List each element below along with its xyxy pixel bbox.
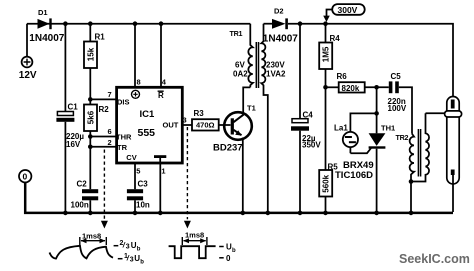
node R1/R2/pin7 xyxy=(88,97,93,102)
svg-text:560k: 560k xyxy=(322,174,331,192)
svg-text:470Ω: 470Ω xyxy=(196,121,215,130)
svg-text:b: b xyxy=(137,246,141,252)
svg-text:350V: 350V xyxy=(302,140,321,149)
level label 1/3 Ub xyxy=(118,258,123,260)
svg-text:D1: D1 xyxy=(38,8,48,17)
resistor R3 xyxy=(192,109,231,131)
svg-text:300V: 300V xyxy=(338,5,358,15)
node: top rail pin4 junction xyxy=(159,21,164,26)
waveform: output square wave xyxy=(169,231,236,264)
svg-text:1N4007: 1N4007 xyxy=(263,34,298,45)
svg-text:7: 7 xyxy=(108,90,112,99)
svg-text:1N4007: 1N4007 xyxy=(29,33,64,44)
plus symbol pin 8 xyxy=(132,90,140,98)
IC1 555 timer xyxy=(108,78,187,176)
svg-text:CV: CV xyxy=(126,153,136,162)
svg-text:T1: T1 xyxy=(247,104,256,113)
node: top rail pin8 junction xyxy=(133,21,138,26)
wire pin 3 to R3 xyxy=(182,124,192,126)
node 300V / R4 xyxy=(323,21,328,26)
svg-text:IC1: IC1 xyxy=(140,109,156,120)
wire pin 6 xyxy=(90,136,116,138)
secondary winding 230V xyxy=(261,24,267,212)
svg-text:R1: R1 xyxy=(95,33,106,42)
svg-text:TR: TR xyxy=(117,143,128,152)
svg-text:1VA2: 1VA2 xyxy=(266,70,286,79)
waveform: capacitor sawtooth xyxy=(50,232,145,266)
secondary winding xyxy=(411,113,429,181)
svg-text:3: 3 xyxy=(130,257,134,264)
svg-text:b: b xyxy=(140,260,144,266)
svg-text:C3: C3 xyxy=(138,180,149,189)
resistor R6 xyxy=(326,72,389,93)
svg-text:C4: C4 xyxy=(303,111,314,120)
capacitor C4 xyxy=(291,24,321,212)
flash tube xyxy=(445,97,462,185)
diode D2 xyxy=(263,7,298,45)
capacitor C2 xyxy=(71,147,99,212)
wire pin 7 xyxy=(90,98,116,100)
svg-text:5k6: 5k6 xyxy=(87,110,96,124)
svg-text:1M5: 1M5 xyxy=(322,46,331,62)
svg-text:12V: 12V xyxy=(19,70,37,81)
svg-text:0: 0 xyxy=(23,172,28,182)
1ms8 measure left xyxy=(80,237,107,245)
primary winding xyxy=(410,134,414,212)
wire collector to TR1 primary xyxy=(243,87,250,114)
svg-text:3: 3 xyxy=(183,116,187,125)
svg-text:1ms8: 1ms8 xyxy=(82,232,101,241)
capacitor C3 xyxy=(127,164,150,212)
svg-text:D2: D2 xyxy=(274,7,284,16)
wire TR1 secondary top to D2 xyxy=(264,23,273,25)
transformer TR2 xyxy=(396,113,430,212)
ground rail xyxy=(25,182,453,213)
wire flash tube bottom to rail xyxy=(452,184,454,212)
svg-text:6: 6 xyxy=(108,127,112,136)
svg-text:15k: 15k xyxy=(87,47,96,61)
node R6/C5/TH1 xyxy=(374,85,379,90)
capacitor C1 xyxy=(56,24,84,212)
wire pin 1 to ground rail xyxy=(159,164,161,213)
12V supply terminal xyxy=(19,57,37,81)
level label Ub xyxy=(219,246,224,248)
svg-text:8: 8 xyxy=(137,78,141,87)
transistor T1 BD237 xyxy=(213,104,256,154)
resistor R2 xyxy=(84,99,109,146)
dashed probe line at pin 3 xyxy=(186,127,188,219)
svg-text:La1: La1 xyxy=(334,124,348,133)
capacitor C5 xyxy=(388,72,413,134)
svg-text:C2: C2 xyxy=(77,180,88,189)
thyristor TH1 xyxy=(335,87,395,212)
primary winding 6V xyxy=(248,24,252,88)
svg-text:3: 3 xyxy=(126,243,130,250)
svg-text:100n: 100n xyxy=(71,201,89,210)
wire top right rail xyxy=(288,24,453,97)
transformer TR1 xyxy=(230,24,286,212)
svg-text:b: b xyxy=(232,248,236,254)
svg-text:TR2: TR2 xyxy=(396,133,409,142)
svg-text:C5: C5 xyxy=(391,72,402,81)
svg-text:230V: 230V xyxy=(266,61,285,70)
resistor R1 xyxy=(84,24,105,100)
wire pin 8 xyxy=(134,24,136,88)
wire from 12V to top rail xyxy=(26,24,28,57)
node R2/pin6 xyxy=(88,134,93,139)
svg-text:5: 5 xyxy=(136,167,140,176)
level label 0 xyxy=(219,257,224,259)
wire top rail xyxy=(27,23,250,25)
wire emitter to ground rail xyxy=(242,138,244,213)
0 terminal xyxy=(19,170,31,182)
ground glyph inside IC xyxy=(154,155,166,158)
svg-text:BD237: BD237 xyxy=(213,143,243,154)
svg-text:R3: R3 xyxy=(194,109,205,118)
svg-text:0: 0 xyxy=(226,254,231,263)
svg-text:DIS: DIS xyxy=(117,98,130,107)
svg-text:555: 555 xyxy=(138,127,156,139)
1ms8 measure right xyxy=(182,237,207,245)
svg-text:R: R xyxy=(158,91,164,100)
wire pin 4 xyxy=(160,24,162,88)
diode D1 xyxy=(29,8,64,44)
svg-text:2: 2 xyxy=(108,138,112,147)
wire pin 2 xyxy=(90,146,116,148)
svg-text:TR1: TR1 xyxy=(230,29,243,38)
resistor R4 xyxy=(319,24,340,88)
wire TR2 secondary to tube trigger xyxy=(426,112,445,114)
node C4 top xyxy=(298,21,303,26)
svg-text:R6: R6 xyxy=(337,72,348,81)
svg-text:R2: R2 xyxy=(99,105,110,114)
svg-text:TH1: TH1 xyxy=(381,124,395,133)
svg-text:820k: 820k xyxy=(342,84,360,93)
svg-text:R4: R4 xyxy=(330,34,341,43)
resistor R5 xyxy=(319,87,338,212)
svg-text:OUT: OUT xyxy=(163,120,179,129)
svg-text:1: 1 xyxy=(161,167,165,176)
svg-text:16V: 16V xyxy=(66,140,81,149)
node: top rail C1 junction xyxy=(63,21,68,26)
core xyxy=(256,42,258,88)
node R4/R6/R5 xyxy=(323,85,328,90)
svg-text:1ms8: 1ms8 xyxy=(185,231,204,240)
svg-text:SeekIC.com: SeekIC.com xyxy=(399,252,470,266)
svg-text:TIC106D: TIC106D xyxy=(335,170,373,181)
supply label 300V xyxy=(323,4,365,22)
svg-text:0A2: 0A2 xyxy=(233,70,248,79)
rail junction dots xyxy=(63,211,68,216)
neon lamp La1 xyxy=(334,113,377,153)
svg-text:10n: 10n xyxy=(136,201,150,210)
dashed probe line at pin 2 xyxy=(103,150,105,220)
node pin2 xyxy=(88,145,93,150)
svg-text:C1: C1 xyxy=(68,103,79,112)
core xyxy=(418,129,420,177)
svg-text:THR: THR xyxy=(116,133,132,142)
svg-text:100V: 100V xyxy=(388,104,407,113)
node: top rail R1 junction xyxy=(88,21,93,26)
svg-text:6V: 6V xyxy=(235,61,245,70)
level label 2/3 Ub xyxy=(114,245,119,247)
